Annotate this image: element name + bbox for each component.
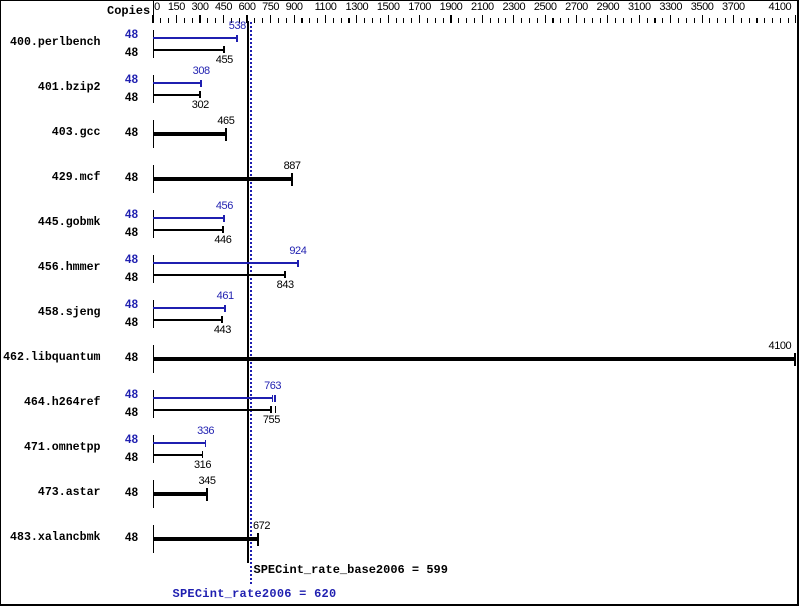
x-axis label 3100 — [628, 2, 651, 13]
bar end cap 473.astar — [206, 488, 208, 502]
peak bar end cap 458.sjeng — [224, 305, 226, 312]
benchmark name 403.gcc — [52, 127, 101, 139]
value label 429.mcf (887) — [284, 161, 301, 172]
group spine 458.sjeng — [153, 300, 154, 328]
base value label 456.hmmer (843) — [277, 280, 294, 291]
copies label 403.gcc (48) — [125, 128, 138, 140]
copies label 473.astar (48) — [125, 488, 138, 500]
value label 462.libquantum (4100) — [769, 341, 792, 352]
base bar 456.hmmer (843) — [153, 274, 285, 276]
peak bar 458.sjeng (461) — [153, 307, 225, 309]
x-axis label 3300 — [659, 2, 682, 13]
base bar end cap 458.sjeng — [221, 316, 223, 323]
peak bar end cap 471.omnetpp — [205, 440, 207, 447]
base bar 458.sjeng (443) — [153, 319, 222, 321]
copies label peak 445.gobmk (48) — [125, 210, 138, 222]
x-axis label 1100 — [315, 2, 337, 13]
benchmark name 458.sjeng — [38, 307, 101, 319]
border top — [0, 0, 799, 1]
benchmark name 471.omnetpp — [24, 442, 101, 454]
copies label base 471.omnetpp (48) — [125, 453, 138, 465]
x-axis label 2500 — [534, 2, 557, 13]
x-axis label 1300 — [346, 2, 369, 13]
group spine 473.astar — [153, 480, 154, 508]
base bar 401.bzip2 (302) — [153, 94, 200, 96]
peak bar max-run cap 464.h264ref — [274, 395, 276, 402]
x-axis label 3700 — [722, 2, 745, 13]
base value label 464.h264ref (755) — [263, 415, 280, 426]
y-axis line — [153, 1, 154, 23]
peak bar 464.h264ref (763) — [153, 397, 273, 399]
copies label base 401.bzip2 (48) — [125, 93, 138, 105]
bar 429.mcf (887) — [153, 177, 292, 181]
peak bar end cap 456.hmmer — [297, 260, 299, 267]
x-axis label 900 — [286, 2, 303, 13]
SPECint_rate_base2006 reference line (599) — [247, 21, 249, 563]
base value label 458.sjeng (443) — [214, 325, 231, 336]
x-axis label 0 — [154, 2, 160, 13]
x-axis label 600 — [238, 2, 255, 13]
SPECint_rate_base2006 result text — [254, 564, 448, 576]
copies label 483.xalancbmk (48) — [125, 533, 138, 545]
base bar 464.h264ref (755) — [153, 409, 271, 411]
group spine 445.gobmk — [153, 210, 154, 238]
base bar 445.gobmk (446) — [153, 229, 223, 231]
copies label 462.libquantum (48) — [125, 353, 138, 365]
x-axis label 2700 — [565, 2, 588, 13]
base value label 445.gobmk (446) — [214, 235, 231, 246]
base value label 400.perlbench (455) — [216, 55, 233, 66]
x-axis label 450 — [215, 2, 232, 13]
peak bar end cap 401.bzip2 — [200, 80, 202, 87]
benchmark name 456.hmmer — [38, 262, 101, 274]
benchmark name 473.astar — [38, 487, 101, 499]
peak bar 401.bzip2 (308) — [153, 82, 201, 84]
x-axis tick marks — [0, 0, 799, 1]
benchmark name 401.bzip2 — [38, 82, 101, 94]
benchmark name 400.perlbench — [10, 37, 100, 49]
bar 473.astar (345) — [153, 492, 207, 496]
group spine 429.mcf — [153, 165, 154, 193]
value label 473.astar (345) — [198, 476, 215, 487]
peak bar end cap 445.gobmk — [223, 215, 225, 222]
peak value label 456.hmmer (924) — [289, 246, 306, 257]
x-axis label 300 — [191, 2, 208, 13]
x-axis label 2100 — [471, 2, 494, 13]
border right — [797, 0, 799, 606]
value label 403.gcc (465) — [217, 116, 234, 127]
benchmark name 429.mcf — [52, 172, 101, 184]
bar end cap 462.libquantum — [794, 353, 796, 367]
copies label base 456.hmmer (48) — [125, 273, 138, 285]
copies label base 464.h264ref (48) — [125, 408, 138, 420]
x-axis label 150 — [168, 2, 185, 13]
peak value label 464.h264ref (763) — [264, 381, 281, 392]
base value label 401.bzip2 (302) — [192, 100, 209, 111]
bar 483.xalancbmk (672) — [153, 537, 258, 541]
peak value label 471.omnetpp (336) — [197, 426, 214, 437]
x-axis label 1500 — [377, 2, 400, 13]
base bar end cap 400.perlbench — [223, 46, 225, 53]
group spine 400.perlbench — [153, 30, 154, 58]
copies label peak 400.perlbench (48) — [125, 30, 138, 42]
bar 403.gcc (465) — [153, 132, 226, 136]
peak value label 401.bzip2 (308) — [193, 66, 210, 77]
base value label 471.omnetpp (316) — [194, 460, 211, 471]
group spine 403.gcc — [153, 120, 154, 148]
x-axis label 3500 — [691, 2, 714, 13]
peak value label 458.sjeng (461) — [217, 291, 234, 302]
copies label peak 471.omnetpp (48) — [125, 435, 138, 447]
x-axis label 4100 — [769, 2, 792, 13]
base bar max-run cap 464.h264ref — [275, 406, 277, 413]
x-axis label 1700 — [408, 2, 431, 13]
benchmark name 445.gobmk — [38, 217, 101, 229]
base bar end cap 471.omnetpp — [202, 451, 204, 458]
peak bar 456.hmmer (924) — [153, 262, 298, 264]
SPECint_rate2006 reference line (620, dotted) — [250, 22, 252, 584]
border left — [0, 0, 1, 606]
bar 462.libquantum (4100) — [153, 357, 795, 361]
base bar end cap 456.hmmer — [284, 271, 286, 278]
copies label base 400.perlbench (48) — [125, 48, 138, 60]
copies label base 458.sjeng (48) — [125, 318, 138, 330]
group spine 471.omnetpp — [153, 435, 154, 463]
peak value label 400.perlbench (538) — [229, 21, 246, 32]
base bar end cap 445.gobmk — [222, 226, 224, 233]
x-axis label 750 — [262, 2, 279, 13]
SPECint_rate2006 result text — [173, 588, 337, 600]
copies label peak 464.h264ref (48) — [125, 390, 138, 402]
peak bar end cap 400.perlbench — [236, 35, 238, 42]
x-axis label 1900 — [440, 2, 463, 13]
group spine 464.h264ref — [153, 390, 154, 418]
copies label 429.mcf (48) — [125, 173, 138, 185]
border bottom — [0, 604, 799, 606]
base bar end cap 464.h264ref — [270, 406, 272, 413]
copies label peak 458.sjeng (48) — [125, 300, 138, 312]
peak value label 445.gobmk (456) — [216, 201, 233, 212]
peak bar 400.perlbench (538) — [153, 37, 237, 39]
base bar end cap 401.bzip2 — [199, 91, 201, 98]
peak bar end cap 464.h264ref — [272, 395, 274, 402]
bar end cap 483.xalancbmk — [257, 533, 259, 547]
group spine 456.hmmer — [153, 255, 154, 283]
bar end cap 429.mcf — [291, 173, 293, 187]
benchmark name 464.h264ref — [24, 397, 101, 409]
bar end cap 403.gcc — [225, 128, 227, 142]
copies label peak 456.hmmer (48) — [125, 255, 138, 267]
value label 483.xalancbmk (672) — [253, 521, 270, 532]
base bar 400.perlbench (455) — [153, 49, 224, 51]
copies label base 445.gobmk (48) — [125, 228, 138, 240]
x-axis label 2300 — [502, 2, 525, 13]
group spine 462.libquantum — [153, 345, 154, 373]
Copies header label — [107, 5, 150, 17]
base bar 471.omnetpp (316) — [153, 454, 203, 456]
copies label peak 401.bzip2 (48) — [125, 75, 138, 87]
peak bar 471.omnetpp (336) — [153, 442, 206, 444]
group spine 483.xalancbmk — [153, 525, 154, 553]
x-axis label 2900 — [597, 2, 620, 13]
benchmark name 462.libquantum — [3, 352, 100, 364]
benchmark name 483.xalancbmk — [10, 532, 100, 544]
peak bar 445.gobmk (456) — [153, 217, 224, 219]
group spine 401.bzip2 — [153, 75, 154, 103]
